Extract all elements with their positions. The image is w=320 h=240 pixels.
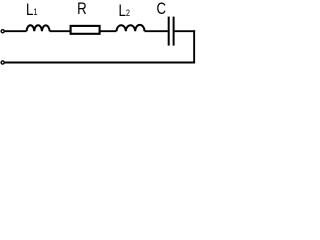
capacitor C plate 1 [168,17,170,46]
svg-text:R: R [77,0,87,19]
svg-text:C: C [156,0,166,18]
terminal T1 (top-left) [1,30,4,33]
inductor L2 [117,25,145,31]
capacitor C plate 2 [173,17,175,46]
wire (L1 to R) [50,30,71,32]
wire (right vertical) [193,30,195,63]
inductor L1 [27,25,50,31]
terminal T2 (bottom-left) [1,61,4,64]
wire (bottom horizontal) [4,62,195,64]
wire (L2 to C) [145,30,168,32]
wire (C to top-right corner) [175,30,196,32]
wire (R to L2) [100,30,116,32]
wire (top-left terminal to L1) [4,30,26,32]
resistor R [71,26,100,34]
